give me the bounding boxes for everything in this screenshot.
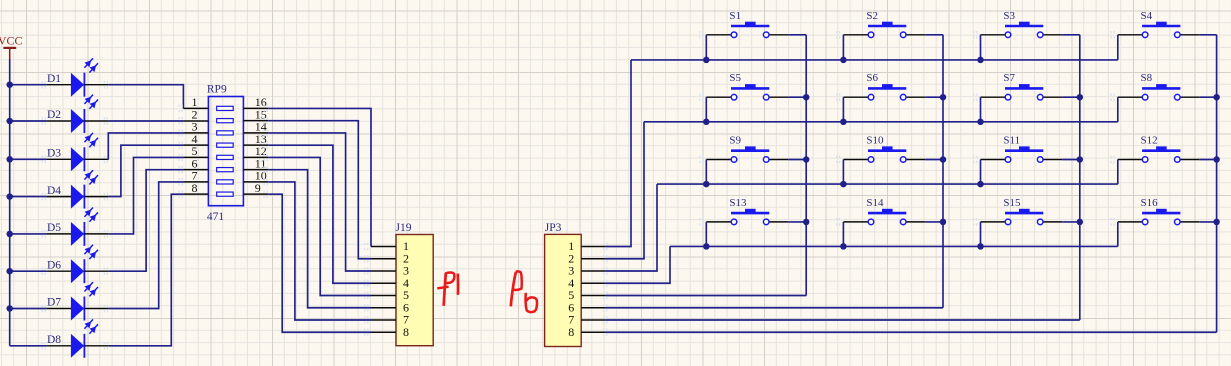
- pin J19.1: [371, 239, 409, 253]
- wire D6 anode: [10, 270, 47, 272]
- svg-text:S10: S10: [866, 135, 884, 147]
- svg-text:8: 8: [568, 325, 574, 339]
- pin JP3.4: [568, 276, 605, 290]
- push button S13: [700, 197, 789, 226]
- wire row bus 4: [670, 245, 1118, 247]
- wire S12 left to row bus: [1117, 160, 1119, 185]
- pin RP9.10: [243, 169, 268, 183]
- wire RP9.16-J19.1: [268, 108, 371, 246]
- wire S5 left to row bus: [705, 97, 707, 122]
- wire S14 right to column: [925, 221, 943, 223]
- svg-text:S16: S16: [1141, 197, 1159, 209]
- pin RP9.4: [183, 132, 208, 146]
- pin J19.5: [371, 288, 409, 302]
- wire S9 left to row bus: [705, 160, 707, 185]
- svg-text:D1: D1: [47, 73, 61, 85]
- push button S15: [974, 197, 1062, 226]
- resistor RP9 element 1: [217, 106, 234, 110]
- svg-text:JP3: JP3: [545, 222, 562, 234]
- junction rail-D2: [6, 118, 13, 125]
- push button S6: [837, 72, 926, 101]
- wire D1-RP9.1: [109, 85, 184, 109]
- svg-text:S2: S2: [866, 10, 878, 22]
- wire D8 anode: [10, 345, 47, 347]
- junction S14 row bus: [840, 243, 847, 250]
- svg-text:S4: S4: [1141, 10, 1153, 22]
- LED D5: [42, 208, 108, 246]
- junction S15 column: [1077, 219, 1084, 226]
- push button S2: [837, 10, 926, 39]
- junction S12 column: [1213, 156, 1220, 163]
- LED D8: [42, 319, 108, 357]
- svg-text:RP9: RP9: [207, 83, 227, 95]
- wire column 3: [1079, 35, 1081, 320]
- junction S6 row bus: [840, 119, 847, 126]
- wire S10 right to column: [925, 159, 943, 161]
- wire RP9.11-J19.6: [268, 170, 371, 308]
- svg-text:D8: D8: [47, 334, 61, 346]
- wire D8-RP9.8: [109, 194, 184, 346]
- pin RP9.11: [243, 156, 268, 170]
- wire S8 right to column: [1199, 96, 1216, 98]
- svg-text:471: 471: [207, 211, 225, 223]
- pin markers J19: [365, 243, 368, 336]
- junction rail-D7: [6, 305, 13, 312]
- push button S8: [1111, 72, 1199, 101]
- pin RP9.13: [243, 132, 268, 146]
- wire D5-RP9.5: [109, 157, 184, 234]
- pin JP3.2: [568, 251, 605, 265]
- pin RP9.16: [243, 95, 268, 109]
- junction rail-D4: [6, 193, 13, 200]
- svg-text:D7: D7: [47, 297, 61, 309]
- junction S10 row bus: [840, 181, 847, 188]
- junction S7 column: [1077, 94, 1084, 101]
- wire S13 right to column: [788, 221, 806, 223]
- svg-text:D6: D6: [47, 259, 61, 271]
- wire D2 anode: [10, 120, 47, 122]
- push button S9: [700, 135, 789, 164]
- junction S16 column: [1213, 219, 1220, 226]
- resistor network RP9: [207, 83, 244, 223]
- wire JP3.6 col2: [606, 307, 943, 309]
- wire JP3.7 col3: [606, 319, 1080, 321]
- svg-text:S8: S8: [1141, 72, 1153, 84]
- junction S11 row bus: [977, 181, 984, 188]
- junction S5 row bus: [703, 119, 710, 126]
- wire S3 left to row bus: [980, 35, 982, 60]
- wire S9 right to column: [788, 159, 806, 161]
- junction rail-D6: [6, 268, 13, 275]
- pin RP9.8: [183, 181, 208, 195]
- wire VCC rail: [9, 59, 11, 345]
- wire S1 right to column: [788, 34, 806, 36]
- pin J19.4: [371, 276, 409, 290]
- wire S1 left to row bus: [705, 35, 707, 60]
- LED D6: [42, 245, 108, 283]
- resistor RP9 element 2: [217, 119, 234, 123]
- svg-text:8: 8: [403, 325, 409, 339]
- push button S3: [974, 10, 1062, 39]
- wire JP3.3 row3: [606, 184, 657, 271]
- wire D6-RP9.6: [109, 170, 184, 272]
- LED D1: [42, 58, 108, 96]
- wire D3-RP9.3: [108, 133, 183, 159]
- pin RP9.7: [183, 169, 208, 183]
- push button S5: [700, 72, 789, 101]
- junction S1 row bus: [703, 57, 710, 64]
- wire RP9.14-J19.3: [268, 133, 371, 271]
- junction S6 column: [940, 94, 947, 101]
- wire D2-RP9.2: [109, 120, 184, 122]
- pin J19.2: [371, 251, 409, 265]
- svg-text:S6: S6: [866, 72, 878, 84]
- wire RP9.15-J19.2: [268, 121, 371, 259]
- wire S15 left to row bus: [980, 222, 982, 247]
- pin JP3.8: [568, 325, 605, 339]
- wire S3 right to column: [1062, 34, 1080, 36]
- wire S2 right to column: [925, 34, 943, 36]
- svg-text:S1: S1: [729, 10, 741, 22]
- wire column 2: [942, 35, 944, 308]
- wire row bus 1: [631, 59, 1118, 61]
- pin RP9.3: [183, 120, 208, 134]
- resistor RP9 element 5: [217, 155, 234, 159]
- wire column 4: [1216, 35, 1218, 332]
- push button S11: [974, 135, 1062, 164]
- junction S9 row bus: [703, 181, 710, 188]
- resistor RP9 element 6: [217, 168, 234, 172]
- svg-text:S15: S15: [1003, 197, 1021, 209]
- svg-text:J19: J19: [396, 222, 412, 234]
- svg-text:9: 9: [255, 181, 261, 195]
- svg-text:S12: S12: [1141, 135, 1158, 147]
- wire S2 left to row bus: [842, 35, 844, 60]
- junction S5 column: [803, 94, 810, 101]
- junction S14 column: [940, 219, 947, 226]
- push button S16: [1111, 197, 1199, 226]
- wire S6 right to column: [925, 96, 943, 98]
- wire S10 left to row bus: [842, 160, 844, 185]
- junction S2 row bus: [840, 57, 847, 64]
- resistor RP9 element 4: [217, 143, 234, 147]
- wire RP9.12-J19.5: [268, 157, 371, 295]
- junction S13 row bus: [703, 243, 710, 250]
- junction rail-D5: [6, 231, 13, 238]
- pin J19.7: [371, 313, 409, 327]
- wire D7 anode: [10, 308, 47, 310]
- wire S7 right to column: [1062, 96, 1080, 98]
- svg-text:D2: D2: [47, 109, 61, 121]
- junction S13 column: [803, 219, 810, 226]
- wire column 1: [805, 35, 807, 296]
- wire JP3.2 row2: [606, 122, 644, 259]
- pin JP3.5: [568, 288, 605, 302]
- svg-text:VCC: VCC: [0, 34, 23, 48]
- LED D3: [42, 133, 108, 171]
- push button S12: [1111, 135, 1199, 164]
- junction S9 column: [803, 156, 810, 163]
- pin RP9.5: [183, 144, 208, 158]
- wire S14 left to row bus: [842, 222, 844, 247]
- pin JP3.7: [568, 313, 605, 327]
- resistor RP9 element 7: [217, 180, 234, 184]
- connector JP3: [545, 222, 582, 346]
- junction rail-D3: [6, 156, 13, 163]
- push button S4: [1111, 10, 1199, 39]
- LED D7: [42, 282, 108, 320]
- svg-text:S3: S3: [1003, 10, 1015, 22]
- svg-text:S14: S14: [866, 197, 884, 209]
- annotation Pb (red): [511, 271, 537, 312]
- svg-text:S7: S7: [1003, 72, 1015, 84]
- junction S15 row bus: [977, 243, 984, 250]
- wire D7-RP9.7: [109, 182, 184, 309]
- junction rail-D1: [6, 81, 13, 88]
- power symbol VCC: [0, 34, 23, 60]
- wire D4 anode: [10, 196, 47, 198]
- junction S10 column: [940, 156, 947, 163]
- wire S7 left to row bus: [980, 97, 982, 122]
- resistor RP9 element 8: [217, 192, 234, 196]
- svg-text:S11: S11: [1003, 135, 1020, 147]
- wire S4 left to row bus: [1117, 35, 1119, 60]
- wire S15 right to column: [1062, 221, 1080, 223]
- wire S8 left to row bus: [1117, 97, 1119, 122]
- resistor RP9 element 3: [217, 131, 234, 135]
- wire S12 right to column: [1199, 159, 1216, 161]
- push button S10: [837, 135, 926, 164]
- wire RP9.13-J19.4: [268, 145, 371, 283]
- wire S11 right to column: [1062, 159, 1080, 161]
- pin RP9.9: [243, 181, 268, 195]
- annotation P1 (red): [437, 272, 458, 305]
- pin J19.8: [371, 325, 409, 339]
- pin JP3.1: [568, 239, 605, 253]
- wire S5 right to column: [788, 96, 806, 98]
- wire D5 anode: [10, 233, 47, 235]
- wire S4 right to column: [1199, 34, 1216, 36]
- pin RP9.15: [243, 107, 268, 121]
- svg-text:S5: S5: [729, 72, 741, 84]
- pin RP9.6: [183, 156, 208, 170]
- pin RP9.1: [183, 95, 208, 109]
- svg-text:8: 8: [192, 181, 198, 195]
- wire S6 left to row bus: [842, 97, 844, 122]
- connector J19: [396, 222, 434, 346]
- wire row bus 3: [657, 183, 1118, 185]
- svg-text:D5: D5: [47, 222, 61, 234]
- wire JP3.1 row1: [606, 60, 631, 247]
- wire JP3.8 col4: [606, 331, 1217, 333]
- pin J19.3: [371, 264, 409, 278]
- pin RP9.14: [243, 120, 268, 134]
- junction S3 row bus: [977, 57, 984, 64]
- wire S16 left to row bus: [1117, 222, 1119, 247]
- pin markers JP3: [604, 243, 607, 336]
- wire S11 left to row bus: [980, 160, 982, 185]
- pin markers RP9: [179, 105, 267, 198]
- svg-text:D4: D4: [47, 185, 61, 197]
- wire S16 right to column: [1199, 221, 1216, 223]
- wire row bus 2: [644, 121, 1118, 123]
- wire RP9.9-J19.8: [268, 194, 371, 332]
- svg-text:D3: D3: [47, 148, 61, 160]
- svg-text:S13: S13: [729, 197, 747, 209]
- push button S1: [700, 10, 789, 39]
- push button S7: [974, 72, 1062, 101]
- junction S7 row bus: [977, 119, 984, 126]
- wire D1 anode: [10, 84, 47, 86]
- LED D4: [42, 170, 108, 208]
- junction S11 column: [1077, 156, 1084, 163]
- pin RP9.2: [183, 107, 208, 121]
- wire JP3.4 row4: [606, 246, 670, 283]
- pin JP3.3: [568, 264, 605, 278]
- push button S14: [837, 197, 926, 226]
- LED D2: [42, 95, 108, 133]
- pin J19.6: [371, 300, 409, 314]
- wire D4-RP9.4: [109, 145, 184, 196]
- pin JP3.6: [568, 300, 605, 314]
- junction S8 column: [1213, 94, 1220, 101]
- pin RP9.12: [243, 144, 268, 158]
- wire RP9.10-J19.7: [268, 182, 371, 320]
- wire S13 left to row bus: [705, 222, 707, 247]
- wire D3 anode: [10, 158, 47, 160]
- wire JP3.5 col1: [606, 295, 807, 297]
- svg-text:S9: S9: [729, 135, 741, 147]
